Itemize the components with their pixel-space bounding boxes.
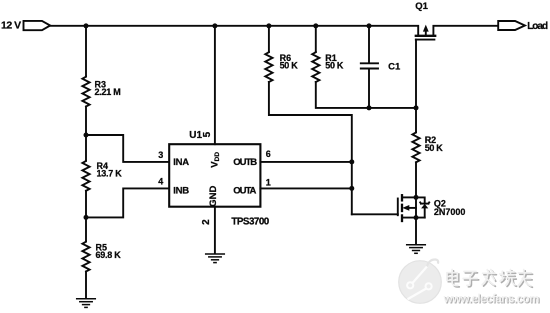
wire 12V rail down to R3 [85,26,87,77]
svg-text:6: 6 [266,149,271,159]
resistor R3 [82,77,89,107]
wire C1 top from rail [368,26,370,63]
Q2 gate bar [397,199,399,216]
svg-text:2: 2 [201,219,212,225]
svg-text:OUTB: OUTB [233,157,257,168]
node Q2 source [414,215,419,220]
svg-text:12 V: 12 V [1,20,21,32]
node A (R3/R4 junction) [84,133,89,138]
svg-text:INB: INB [173,185,189,196]
resistor R6 [265,52,272,82]
svg-text:1: 1 [266,177,271,187]
Q2 drain-source vertical [415,197,417,217]
svg-text:Q1: Q1 [415,1,428,12]
svg-text:C1: C1 [388,61,401,72]
wire U1 pin 1 OUTA to gate net [260,187,351,189]
transistor Q2 (N-channel MOSFET 2N7000) [398,195,429,221]
resistor R4 [82,161,89,191]
node 12V rail / C1 junction [367,23,372,28]
svg-text:GND: GND [208,186,219,207]
wire Q2 source to ground [415,218,417,244]
Q1 gate bar [416,39,435,41]
ground below U1 pin 2 [206,254,225,263]
svg-text:OUTA: OUTA [233,185,256,196]
svg-text:13.7 K: 13.7 K [97,169,123,179]
node 12V rail / R6 junction [266,23,271,28]
svg-text:50 K: 50 K [280,61,299,71]
svg-text:2.21 M: 2.21 M [95,87,121,97]
node 12V rail / U1 VDD junction [212,23,217,28]
resistor R1 [312,52,319,82]
svg-text:VDD: VDD [209,152,221,168]
Q1 body arrow [425,30,427,36]
svg-text:69.8 K: 69.8 K [96,250,122,260]
Q1 channel bar [416,35,435,37]
node B (R4/R5 junction) [84,215,89,220]
node C1 / R1 net [367,105,372,110]
wire R1 bottom to Q1 gate node [316,82,416,108]
resistor R5 [82,242,89,272]
wire R2 bottom to Q2 drain [415,162,417,197]
connector 12V input [24,21,51,30]
node 12V rail / R3 junction [84,23,89,28]
svg-text:www.elecfans.com: www.elecfans.com [443,293,539,305]
Q2 body diode [416,197,425,203]
wire R1 down from rail [315,26,317,52]
node Q1 gate / R2 top [414,105,419,110]
Q2 drain stub [402,196,416,198]
wire U1 pin 5 VDD to rail [214,26,216,144]
svg-text:U1: U1 [189,130,202,141]
wire R4 to divider node B [85,191,87,218]
wire R6 down from rail [268,26,270,52]
svg-text:4: 4 [158,177,163,187]
wire node B to U1 pin 4 INB [86,188,169,217]
svg-text:5: 5 [202,131,213,137]
connector Load output [498,21,525,30]
wire top rail right (Q1 drain to Load) [433,26,498,35]
wire U1 pin 6 OUTB to gate net [260,161,351,163]
node OUTB / gate net [349,159,354,164]
ground below R5 [77,299,96,308]
node Q2 drain [414,195,419,200]
IC U1 TPS3700 body [169,144,260,207]
node OUTA / gate net [349,186,354,191]
capacitor C1 [361,63,378,68]
wire R6 bottom to Q2 gate net vertical [269,82,352,214]
wire U1 pin 2 GND down [214,207,216,254]
Q2 source stub [402,217,425,219]
svg-text:2N7000: 2N7000 [434,207,466,217]
wire R2 top [415,108,417,132]
svg-text:50 K: 50 K [425,143,444,153]
wire node A down to R4 [85,135,87,161]
svg-text:INA: INA [173,157,189,168]
wire gate net to Q2 gate [352,213,398,215]
wire node A to U1 pin 3 INA [86,135,169,162]
wire C1 bottom to gate node [368,69,370,108]
wire R5 to ground [85,272,87,299]
svg-text:TPS3700: TPS3700 [231,217,269,228]
Q2 body stub with arrow [409,207,417,209]
wire node B down to R5 [85,217,87,241]
wire top rail left (12V to Q1 source) [50,26,418,35]
wire R3 to divider node A [85,107,87,136]
svg-text:Load: Load [527,21,548,32]
Q2 channel segments [401,195,403,221]
ground below Q2 [407,245,426,254]
transistor Q1 (P-channel MOSFET) [416,25,435,40]
resistor R2 [412,132,419,162]
svg-text:3: 3 [158,150,163,160]
node 12V rail / R1 junction [313,23,318,28]
svg-text:50 K: 50 K [325,61,344,71]
watermark logo circle [399,259,442,303]
wire Q1 gate down to R2 node [415,40,417,108]
